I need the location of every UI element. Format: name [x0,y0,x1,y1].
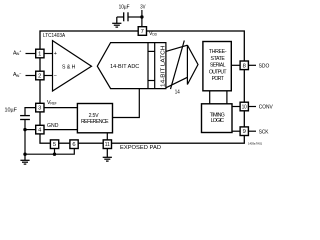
junction dot rail left [23,153,26,156]
wire pin 3 VREF to reference [44,107,77,109]
svg-text:+: + [54,51,57,57]
svg-text:SDO: SDO [259,63,270,69]
pin 11 [103,140,111,149]
op-amp S&H [53,41,92,91]
wire pin 8 to SDO [248,64,256,66]
svg-text:PORT: PORT [212,76,225,82]
svg-text:3: 3 [38,106,41,112]
wire AIN+ input to pin 1 [26,53,36,55]
svg-text:6: 6 [72,142,75,148]
svg-text:LTC1403A: LTC1403A [43,33,65,39]
wire pin 5 to rail [54,147,56,155]
timing logic block [202,104,233,133]
svg-text:VDD: VDD [149,31,158,37]
label AIN+ [13,50,22,57]
ground symbol bottom-left [20,154,29,164]
ADC internal divider right (latch left edge) [154,43,156,89]
svg-text:10µF: 10µF [119,4,130,10]
junction dot pin5 rail [53,153,56,156]
svg-text:14-BIT ADC: 14-BIT ADC [110,64,140,70]
wire pin 2 to S&H [44,75,53,77]
label VREF [47,100,57,106]
wire port to timing right [226,91,228,104]
junction dot 3V [140,15,143,18]
bus arrow 14 head [187,45,198,84]
svg-text:14-BIT LATCH: 14-BIT LATCH [161,46,167,87]
wire port to pin 8 [231,64,240,66]
svg-text:SCK: SCK [259,129,269,135]
pin 10 [240,102,248,111]
wire timing to pin 9 [232,130,240,132]
wire VREF to bypass cap C2 [25,108,36,116]
svg-text:10µF: 10µF [5,108,18,114]
wire timing to pin 10 [232,106,240,108]
wire cap C1 to ground [117,16,124,18]
svg-text:1403a TA01: 1403a TA01 [248,142,263,146]
svg-text:8: 8 [243,63,246,69]
svg-text:VREF: VREF [47,100,57,106]
pin 8 [240,61,248,70]
label AIN- [13,71,22,78]
wire reference to exposed pad pin 11 [106,133,108,140]
IC outline U1 LTC1403A [40,31,244,143]
svg-text:AIN−: AIN− [13,71,22,78]
svg-text:GND: GND [47,123,59,129]
rung top [148,50,155,52]
bus arrow 14 tail [166,45,188,88]
svg-text:SERIAL: SERIAL [210,63,226,69]
svg-text:14: 14 [175,89,180,95]
wire cap junction to pin 4 [25,129,36,131]
svg-text:S & H: S & H [62,65,75,71]
svg-text:1: 1 [38,52,41,58]
junction dot cap/pin4 [23,128,26,131]
ground symbol exposed pad [103,149,112,162]
svg-text:3V: 3V [140,4,146,10]
ADC internal divider left [147,43,149,89]
capacitor C1 10uF [123,12,125,21]
svg-text:THREE-: THREE- [209,49,227,55]
wire pin 10 to CONV [248,106,256,108]
2.5V reference block [77,104,112,133]
svg-text:CONV: CONV [259,105,273,111]
label VDD [149,31,158,37]
pin 9 [240,127,248,136]
ground rail bottom [25,147,74,155]
svg-text:OUTPUT: OUTPUT [209,69,227,75]
wire pin 1 to S&H [44,53,53,55]
pin 6 [70,140,78,149]
bus slash [171,41,185,90]
pin 2 [36,71,44,80]
wire AIN- input to pin 2 [26,75,36,77]
wire 3V to cap C1 [128,16,142,18]
svg-text:LOGIC: LOGIC [211,118,225,124]
wire port to timing left [209,91,211,104]
three-state serial output port U2 [203,42,231,91]
wire pin 4 GND to reference [44,129,77,131]
svg-text:11: 11 [105,142,110,148]
svg-text:AIN+: AIN+ [13,50,22,57]
svg-text:5: 5 [53,142,56,148]
pin 5 [50,140,58,149]
svg-text:7: 7 [141,29,144,35]
ground symbol top [112,17,121,27]
pin 1 [36,49,44,58]
pin 7 [138,27,146,36]
svg-text:REFERENCE: REFERENCE [81,119,109,125]
wire reference to ADC [113,89,140,118]
svg-text:10: 10 [242,105,247,111]
wire pin 9 to SCK [248,130,256,132]
ADC A/D converter hexagon with latch [97,43,166,89]
svg-text:STATE: STATE [211,56,226,62]
capacitor C2 10uF [20,115,30,117]
svg-text:EXPOSED PAD: EXPOSED PAD [120,145,161,151]
pin 4 [36,125,44,134]
supply 3V node [141,10,143,28]
svg-text:9: 9 [243,129,246,135]
pin 3 [36,103,44,112]
svg-text:−: − [54,74,57,80]
svg-text:2: 2 [38,74,41,80]
wire cap C2 bottom to GND net [24,120,26,155]
rung bottom [148,80,155,82]
